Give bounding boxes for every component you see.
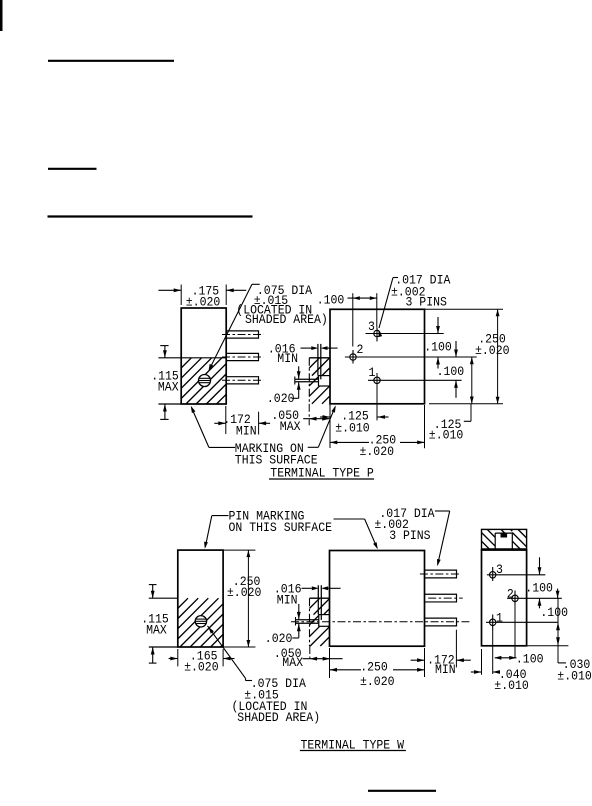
svg-text:1: 1 — [369, 365, 376, 380]
svg-text:3 PINS: 3 PINS — [406, 295, 448, 310]
svg-text:3: 3 — [368, 319, 375, 334]
svg-text:MIN: MIN — [435, 662, 456, 677]
svg-text:±.010: ±.010 — [494, 678, 529, 693]
svg-text:±.010: ±.010 — [557, 669, 592, 684]
svg-text:1: 1 — [496, 611, 503, 626]
svg-text:MAX: MAX — [280, 419, 301, 434]
svg-text:MAX: MAX — [158, 380, 179, 395]
svg-text:.020: .020 — [267, 391, 295, 406]
svg-text:±.020: ±.020 — [475, 343, 510, 358]
svg-text:±.020: ±.020 — [360, 674, 395, 689]
svg-text:.100: .100 — [317, 293, 345, 308]
svg-text:±.020: ±.020 — [360, 444, 395, 459]
svg-text:MIN: MIN — [236, 424, 257, 439]
svg-text:.100: .100 — [525, 580, 553, 595]
svg-text:±.020: ±.020 — [186, 294, 221, 309]
svg-text:3 PINS: 3 PINS — [389, 528, 431, 543]
svg-text:2: 2 — [507, 586, 514, 601]
svg-text:2: 2 — [357, 342, 364, 357]
svg-text:.250: .250 — [360, 660, 388, 675]
svg-text:MIN: MIN — [277, 351, 298, 366]
svg-text:MAX: MAX — [282, 655, 303, 670]
svg-text:MAX: MAX — [146, 622, 167, 637]
svg-text:.100: .100 — [540, 605, 568, 620]
svg-text:.020: .020 — [265, 631, 293, 646]
svg-text:±.010: ±.010 — [429, 428, 464, 443]
svg-text:±.020: ±.020 — [184, 660, 219, 675]
svg-text:ON THIS SURFACE: ON THIS SURFACE — [229, 520, 333, 535]
svg-text:SHADED AREA): SHADED AREA) — [237, 710, 320, 725]
svg-text:MIN: MIN — [277, 592, 298, 607]
svg-text:.100: .100 — [516, 652, 544, 667]
svg-text:.100: .100 — [424, 340, 452, 355]
svg-text:±.010: ±.010 — [335, 421, 370, 436]
svg-text:±.020: ±.020 — [227, 585, 262, 600]
svg-text:SHADED AREA): SHADED AREA) — [245, 312, 328, 327]
svg-text:.100: .100 — [437, 364, 465, 379]
